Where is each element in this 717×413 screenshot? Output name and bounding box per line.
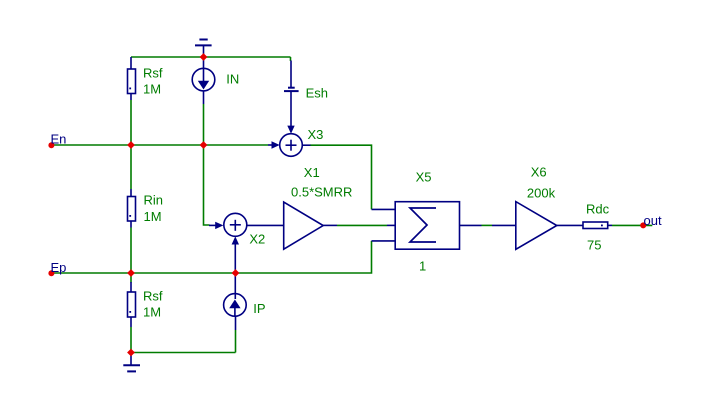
svg-text:Rsf: Rsf [143, 289, 163, 304]
svg-text:X3: X3 [308, 127, 324, 142]
svg-text:200k: 200k [527, 186, 556, 201]
svg-text:Rin: Rin [144, 192, 164, 207]
svg-text:En: En [51, 132, 67, 147]
svg-text:1M: 1M [143, 81, 161, 96]
svg-text:Esh: Esh [306, 86, 328, 101]
svg-text:X2: X2 [249, 232, 265, 247]
svg-text:X1: X1 [304, 165, 320, 180]
svg-text:IN: IN [226, 72, 239, 87]
svg-text:1: 1 [419, 259, 426, 274]
svg-text:75: 75 [587, 238, 601, 253]
svg-text:out: out [644, 213, 662, 228]
svg-text:X6: X6 [531, 164, 547, 179]
svg-text:X5: X5 [416, 169, 432, 184]
svg-text:Rsf: Rsf [143, 66, 163, 81]
svg-text:0.5*SMRR: 0.5*SMRR [291, 184, 352, 199]
svg-text:1M: 1M [143, 304, 161, 319]
svg-text:1M: 1M [144, 209, 162, 224]
svg-text:IP: IP [253, 301, 265, 316]
svg-text:Rdc: Rdc [586, 202, 610, 217]
svg-text:Ep: Ep [51, 260, 67, 275]
